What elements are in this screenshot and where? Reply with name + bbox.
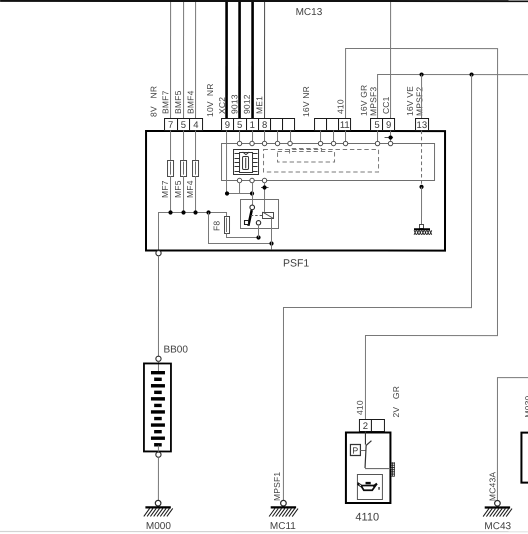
junction pin13 ground wire	[419, 185, 423, 189]
wire battery to ground M000	[157, 457, 159, 500]
svg-text:9013: 9013	[229, 94, 239, 114]
svg-text:MPSF2: MPSF2	[414, 87, 424, 116]
svg-text:MC43: MC43	[484, 521, 511, 532]
svg-text:410: 410	[355, 400, 365, 415]
pin 13 of PSF1 connector	[416, 119, 429, 131]
wire MPSF1 to ground MC11	[283, 75, 471, 501]
internal chassis ground of PSF1	[414, 225, 432, 235]
oil pressure switch 4110	[346, 420, 395, 504]
junction on bus	[193, 210, 197, 214]
svg-text:8V NR: 8V NR	[149, 86, 159, 117]
PSF1 box	[146, 131, 445, 251]
svg-text:9012: 9012	[242, 94, 252, 114]
wire fuse MF4 to bus	[195, 176, 197, 212]
wire actuator down to PSF1 bottom	[271, 219, 273, 250]
switch wire from pin 2	[364, 432, 366, 445]
svg-text:BB00: BB00	[163, 344, 188, 355]
svg-text:5: 5	[181, 120, 186, 131]
top interconnect bar MC13	[0, 0, 528, 2]
svg-text:XC2: XC2	[217, 97, 227, 114]
wire MPSF2 to pin 13	[421, 75, 423, 119]
dashed wire pin 13 to internal ground	[421, 131, 423, 187]
stub blank b to carrier	[290, 131, 292, 144]
dashed group box inner	[290, 149, 322, 154]
wire XC2 inside PSF1	[227, 130, 253, 193]
svg-text:4: 4	[193, 120, 198, 131]
junction XC2 corner	[225, 191, 229, 195]
pin 8 of PSF1 connector	[259, 118, 271, 130]
stub pin ME1 to carrier	[264, 131, 266, 144]
switch contact terminal	[256, 221, 260, 225]
svg-text:9: 9	[386, 120, 391, 131]
wire fuse MF7 to bus	[170, 176, 172, 212]
svg-text:16V VE: 16V VE	[405, 86, 415, 116]
svg-text:MPSF1: MPSF1	[272, 472, 282, 501]
wire to case ground	[365, 468, 390, 470]
svg-text:16V GR: 16V GR	[359, 85, 369, 116]
stub pin 9012 to carrier	[252, 130, 254, 143]
svg-text:M030: M030	[523, 395, 528, 417]
wire BMF5	[183, 2, 185, 118]
wire carrier ME1 to actuator	[264, 183, 266, 212]
svg-text:13: 13	[417, 120, 428, 131]
stub blank c to carrier	[320, 131, 322, 144]
wire PSF1 to battery BB00	[157, 256, 159, 356]
switch blade of 4110	[365, 441, 371, 468]
switch pivot terminal	[250, 205, 255, 210]
stub pin 5 MPSF3 to carrier	[377, 131, 379, 144]
splice on CC1 stub	[385, 135, 394, 139]
svg-text:8: 8	[262, 120, 267, 131]
svg-text:410: 410	[335, 99, 345, 114]
pin 9 of PSF1 connector	[383, 119, 395, 131]
svg-text:BMF5: BMF5	[173, 90, 183, 114]
svg-text:5: 5	[237, 120, 242, 131]
junction on bus	[206, 210, 210, 214]
stub blank d to carrier	[333, 131, 335, 144]
fuse MF7	[168, 160, 174, 176]
P link wire	[360, 450, 366, 452]
branch wire bus to contact rail	[209, 212, 272, 243]
ground MC43	[483, 500, 512, 516]
fuse F8	[225, 216, 230, 233]
partially visible module at right edge	[521, 433, 528, 483]
junction contact rail	[269, 241, 273, 245]
splice on ME1 wire	[261, 185, 269, 189]
wire contact down	[258, 225, 260, 238]
switch blade	[248, 210, 251, 226]
wire 9013	[238, 2, 241, 118]
pin 9 of PSF1 connector	[222, 118, 234, 130]
connector circle PSF1 bottom outlet	[156, 251, 161, 256]
oil can icon	[357, 482, 379, 490]
stub carrier to 9013 rail	[239, 183, 241, 194]
svg-text:MC13: MC13	[296, 7, 323, 18]
pin 7 of PSF1 connector	[165, 118, 178, 130]
junction F8/contact	[256, 235, 260, 239]
stub wire to fuse MF5	[183, 130, 185, 160]
pin blank of PSF1 connector	[327, 119, 339, 131]
svg-text:11: 11	[340, 120, 350, 131]
relay switch box	[241, 199, 279, 228]
wire 10V NR XC2	[225, 2, 228, 118]
wire F8 to switch contact	[227, 233, 259, 237]
pin blank of PSF1 connector	[271, 119, 283, 131]
junction MPSF net / MPSF1	[469, 72, 473, 76]
switch left terminal	[245, 220, 249, 224]
ground MC11	[269, 500, 298, 516]
actuator block with diagonal	[263, 212, 274, 219]
battery BB00	[144, 356, 171, 457]
pin 5 of PSF1 connector	[234, 118, 247, 130]
junction on bus	[168, 210, 172, 214]
wire BMF7	[170, 2, 172, 118]
wire ME1	[264, 2, 266, 118]
pin blank of PSF1 connector	[283, 119, 295, 131]
wire down to internal ground	[421, 187, 423, 225]
svg-text:MPSF3: MPSF3	[368, 87, 378, 116]
P indicator box	[350, 445, 360, 456]
relay carrier rect	[222, 143, 435, 180]
svg-text:BMF4: BMF4	[185, 90, 195, 114]
stub pin 9 CC1 to carrier	[390, 131, 392, 144]
pin 5 of PSF1 connector	[371, 119, 383, 131]
svg-text:7: 7	[168, 120, 173, 131]
body of 4110	[346, 433, 391, 504]
wire CC1	[390, 2, 392, 118]
ground M000	[144, 500, 173, 516]
wire 9012	[251, 2, 254, 118]
dashed group box mid	[278, 152, 335, 163]
net 410 from pin 11 to 4110 pin 2	[345, 49, 497, 420]
blank pin of 4110	[371, 420, 384, 432]
dashed group box outer	[264, 149, 379, 172]
svg-text:2: 2	[363, 421, 368, 432]
svg-text:MF7: MF7	[160, 180, 170, 198]
svg-text:PSF1: PSF1	[283, 258, 309, 270]
svg-text:5: 5	[374, 120, 379, 131]
svg-text:1: 1	[250, 120, 255, 131]
stub wire to fuse MF4	[195, 130, 197, 160]
case ground hatch	[392, 462, 395, 476]
svg-text:2V GR: 2V GR	[391, 386, 401, 418]
stub wire to fuse MF7	[170, 130, 172, 160]
stub pin 11 to carrier	[345, 131, 347, 144]
stub blank a to carrier	[277, 131, 279, 144]
svg-text:M000: M000	[146, 521, 171, 532]
carrier sockets bottom	[237, 178, 266, 182]
svg-text:CC1: CC1	[381, 96, 391, 114]
svg-text:10V NR: 10V NR	[205, 83, 215, 117]
junction on bus	[181, 210, 185, 214]
supply bus inside PSF1	[159, 212, 227, 249]
stub carrier to switch pivot	[252, 183, 254, 206]
pin 1 of PSF1 connector	[247, 118, 259, 130]
pin 11 of PSF1 connector	[339, 119, 351, 131]
mechanical link dashes	[251, 214, 263, 216]
wire BMF4	[195, 2, 197, 118]
fuse MF4	[193, 160, 199, 176]
oil icon box	[357, 475, 382, 500]
svg-text:MC43A: MC43A	[487, 472, 497, 501]
svg-text:ME1: ME1	[254, 96, 264, 114]
svg-text:MC11: MC11	[270, 521, 296, 532]
svg-text:MF4: MF4	[185, 180, 195, 198]
carrier sockets top	[237, 141, 392, 145]
stub pin 9013 to carrier	[239, 130, 241, 143]
fuse MF5	[181, 160, 187, 176]
svg-text:P: P	[352, 446, 358, 456]
svg-text:4110: 4110	[355, 512, 379, 524]
wire fuse MF5 to bus	[183, 176, 185, 212]
pin 4 of PSF1 connector	[190, 118, 203, 130]
pin 5 of PSF1 connector	[178, 118, 190, 130]
svg-text:MF5: MF5	[173, 180, 183, 198]
junction MPSF net / pin13	[419, 72, 423, 76]
junction 9012/switch	[250, 191, 254, 195]
net MPSF3 up and off page right	[378, 75, 528, 119]
svg-text:9: 9	[225, 120, 230, 131]
electronic module in carrier	[234, 149, 259, 174]
svg-text:F8: F8	[212, 221, 222, 231]
pin 2 of 4110	[359, 420, 371, 433]
pin blank of PSF1 connector	[315, 119, 327, 131]
svg-text:BMF7: BMF7	[160, 90, 170, 114]
wire MC43A from page right to ground MC43	[497, 378, 528, 501]
page bottom rule	[0, 531, 528, 532]
svg-text:16V NR: 16V NR	[301, 86, 311, 117]
